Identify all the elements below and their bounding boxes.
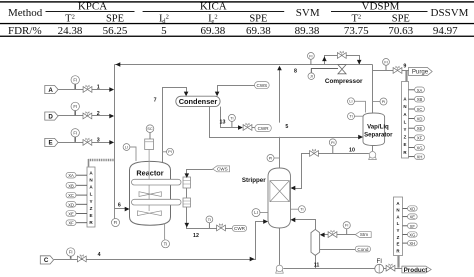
svg-text:FI: FI <box>73 104 77 109</box>
svg-text:Method: Method <box>8 7 43 19</box>
wire CW return valve to CWR <box>252 127 255 129</box>
arrow bypass up <box>322 57 327 62</box>
svg-text:XE: XE <box>417 126 423 131</box>
wire steam line <box>321 234 355 236</box>
svg-text:FI: FI <box>345 224 348 228</box>
svg-text:FDR/%: FDR/% <box>8 25 42 37</box>
valve steam <box>328 230 337 238</box>
svg-text:XF: XF <box>417 136 423 141</box>
svg-text:Reactor: Reactor <box>136 169 163 178</box>
tag feed D <box>45 112 58 120</box>
table mid rule <box>0 23 474 24</box>
instrument FI feed D <box>71 102 79 115</box>
svg-text:TI: TI <box>208 218 211 222</box>
instrument PI reactor <box>163 148 174 155</box>
svg-text:SVM: SVM <box>296 7 320 19</box>
wire stream 6 branch to reactor <box>115 208 129 210</box>
stripper vessel <box>242 168 291 228</box>
reactor vessel <box>130 161 171 225</box>
TABLE <box>0 1 474 37</box>
svg-text:Stripper: Stripper <box>242 177 266 184</box>
tag Cond <box>355 246 370 252</box>
table rule under VDSPM <box>331 10 428 13</box>
svg-text:13: 13 <box>220 119 226 125</box>
valve feed A <box>83 85 92 93</box>
arrow reactor CW return corner <box>185 223 190 228</box>
tag CWR condenser <box>255 125 271 132</box>
reboiler <box>311 229 320 255</box>
reactor agitator blade 2 <box>138 211 162 216</box>
arrows <box>109 57 363 262</box>
separator vessel <box>363 113 393 146</box>
svg-text:XC: XC <box>417 107 423 112</box>
svg-text:C: C <box>44 257 49 264</box>
wire reactor coil header connector <box>186 188 188 198</box>
table rule under KPCA <box>46 10 135 13</box>
svg-text:Product: Product <box>404 267 429 274</box>
svg-text:XC: XC <box>68 193 74 198</box>
instrument PI stripper overhead <box>267 155 280 162</box>
wire stream 7 reactor to condenser <box>163 88 187 164</box>
feed analyzer box <box>87 167 95 227</box>
product analyzer XE <box>403 214 418 220</box>
svg-text:Cond: Cond <box>357 247 368 252</box>
svg-text:8: 8 <box>294 69 297 75</box>
wire feed C line (stream 4) <box>54 222 267 260</box>
svg-text:6: 6 <box>118 203 121 209</box>
wire separator bottoms (stream 10) <box>372 146 374 152</box>
wire feed A line <box>58 89 113 91</box>
svg-text:FI: FI <box>114 220 118 225</box>
table bottom rule <box>0 36 474 37</box>
svg-text:TI: TI <box>300 208 303 212</box>
svg-text:SPE: SPE <box>392 14 410 25</box>
valve feed D <box>83 111 92 119</box>
wire reactor CWS inlet <box>187 170 213 177</box>
arrow stripper overhead into recycle <box>277 66 282 71</box>
instrument FI purge <box>383 59 390 71</box>
svg-text:Vap/Liq: Vap/Liq <box>367 124 389 131</box>
wire feed E line <box>58 142 113 144</box>
instrument FI feed A <box>71 76 79 89</box>
tag feed C <box>40 256 53 264</box>
svg-text:5: 5 <box>285 124 288 130</box>
purge analyzer XH <box>409 154 425 160</box>
svg-text:73.75: 73.75 <box>344 25 369 37</box>
svg-text:PI: PI <box>382 100 386 104</box>
tag CWS reactor <box>213 166 230 172</box>
svg-text:CWR: CWR <box>234 226 246 231</box>
svg-text:SPE: SPE <box>106 14 124 25</box>
arrow condenser CW to valve <box>238 125 243 130</box>
svg-text:TI: TI <box>164 241 168 246</box>
svg-text:CWR: CWR <box>258 126 270 131</box>
svg-text:VDSPM: VDSPM <box>362 1 400 13</box>
svg-text:Compressor: Compressor <box>325 78 363 85</box>
wire condenser CW return <box>221 107 242 128</box>
reactor coil header 1 <box>183 177 191 188</box>
arrow stream 7 into condenser <box>184 92 189 97</box>
svg-text:2: 2 <box>97 111 100 117</box>
svg-text:69.38: 69.38 <box>246 25 271 37</box>
svg-text:69.38: 69.38 <box>201 25 226 37</box>
svg-text:E: E <box>49 140 53 147</box>
stripper packing <box>270 181 290 202</box>
reactor TI stub <box>164 224 166 240</box>
arrow feed A junction <box>109 87 114 92</box>
arrow bypass down <box>357 60 362 65</box>
svg-text:SC: SC <box>147 126 153 131</box>
svg-text:TI: TI <box>230 116 233 120</box>
instrument PI stream 10 <box>329 139 336 153</box>
condenser vessel <box>176 96 220 106</box>
purge analyzer XA <box>409 87 425 93</box>
reactor coil 1 <box>132 179 182 185</box>
instrument JI compressor <box>308 73 315 80</box>
wire feed header vertical <box>114 65 116 219</box>
wire CWS to condenser <box>218 86 255 96</box>
svg-text:24.38: 24.38 <box>58 25 83 37</box>
valve purge <box>393 66 402 74</box>
instrument PI separator <box>373 98 388 105</box>
valve stream 10 <box>310 149 319 157</box>
svg-text:XB: XB <box>417 97 423 102</box>
svg-text:XG: XG <box>416 146 422 151</box>
arrow condenser outlet into separator <box>358 135 363 140</box>
purge analyzer XF <box>409 135 425 141</box>
arrow reboiler return into stripper <box>291 218 296 223</box>
product analyzer XH <box>403 240 418 246</box>
wire reboiler condensate to Cond <box>320 249 356 251</box>
feed analyzer XE <box>66 211 87 217</box>
product analyzer sample line <box>397 256 399 268</box>
feed analyzer XF <box>66 220 87 226</box>
instrument FI feed E <box>71 129 79 142</box>
arrow stream 4 into stripper <box>263 219 268 224</box>
instrument FI feed C <box>67 248 75 259</box>
arrow steam into reboiler <box>320 233 325 238</box>
svg-text:KPCA: KPCA <box>78 1 107 13</box>
svg-text:Condenser: Condenser <box>179 97 218 106</box>
svg-text:FI: FI <box>376 258 382 265</box>
valve compressor bypass <box>337 51 346 59</box>
feed analyzer XC <box>66 192 87 198</box>
tag Stm <box>355 232 371 238</box>
product analyzer XG <box>403 232 418 238</box>
wire reboiler bottom to product line <box>315 255 317 268</box>
svg-text:LI: LI <box>125 145 128 149</box>
purge analyzer box <box>402 82 409 159</box>
reactor agitator motor <box>145 139 154 150</box>
tag Product <box>402 266 431 274</box>
instrument TI reactor CW <box>206 216 213 228</box>
valve condenser CW <box>243 123 252 131</box>
tag feed E <box>45 138 58 146</box>
feed analyzer XA <box>66 172 87 178</box>
instrument TI stripper <box>291 206 305 213</box>
svg-text:94.97: 94.97 <box>433 25 458 37</box>
wire condenser outlet to separator <box>210 107 362 138</box>
arrow CWS into condenser <box>215 92 220 97</box>
svg-text:CWS: CWS <box>217 167 228 172</box>
instrument FI product <box>375 258 384 273</box>
svg-text:XD: XD <box>68 202 74 207</box>
feed analyzer XD <box>66 202 87 208</box>
svg-text:PI: PI <box>331 141 335 145</box>
svg-text:FI: FI <box>384 60 387 64</box>
svg-text:XF: XF <box>410 224 416 229</box>
stripper bottoms pump <box>276 265 284 273</box>
wire product line (stream 11) <box>283 268 402 270</box>
purge analyzer sample line <box>405 71 407 82</box>
svg-text:XF: XF <box>68 221 74 226</box>
svg-text:3: 3 <box>97 137 100 143</box>
instrument FI compressor <box>308 53 315 65</box>
arrow feed D junction <box>109 114 114 119</box>
product analyzer XD <box>403 206 418 212</box>
valve reactor CW <box>217 223 226 231</box>
svg-text:9: 9 <box>403 64 406 70</box>
valve product <box>386 264 395 272</box>
purge analyzer XC <box>409 106 425 112</box>
svg-text:XD: XD <box>417 117 423 122</box>
feed analyzer sample line <box>89 159 115 167</box>
valve feed C <box>77 254 86 262</box>
svg-text:XG: XG <box>409 233 415 238</box>
svg-text:PI: PI <box>269 156 273 160</box>
svg-text:XA: XA <box>68 173 74 178</box>
valve feed E <box>83 138 92 146</box>
arrow stream 6 into reactor <box>125 207 130 212</box>
svg-text:LI: LI <box>349 100 352 104</box>
svg-text:KICA: KICA <box>200 1 227 13</box>
svg-text:XB: XB <box>68 183 74 188</box>
compressor <box>325 65 363 85</box>
svg-text:XD: XD <box>409 207 415 212</box>
svg-text:Separator: Separator <box>364 131 393 138</box>
svg-text:DSSVM: DSSVM <box>431 7 469 19</box>
svg-text:11: 11 <box>314 262 320 268</box>
wire feed D line <box>58 115 113 117</box>
purge analyzer XD <box>409 116 425 122</box>
svg-text:5: 5 <box>161 25 167 37</box>
tag CWS condenser <box>255 82 270 89</box>
instrument FI stream 6 <box>112 209 120 227</box>
wire recycle header top (stream 8) <box>115 64 373 66</box>
svg-text:FI: FI <box>73 130 77 135</box>
wire reboiler vapor return <box>292 220 316 230</box>
reactor coil 2 <box>132 199 182 205</box>
table rule under KICA <box>143 10 285 13</box>
arrow stream 10 into stripper <box>291 186 296 191</box>
svg-text:D: D <box>48 113 53 120</box>
wire separator riser <box>372 65 374 114</box>
svg-text:12: 12 <box>193 233 199 239</box>
svg-text:XE: XE <box>68 212 74 217</box>
wire compressor bypass <box>325 56 360 65</box>
instrument LI separator <box>348 98 366 113</box>
svg-text:FI: FI <box>69 250 73 255</box>
purge analyzer XE <box>409 125 425 131</box>
svg-text:FI: FI <box>309 54 312 58</box>
svg-text:SPE: SPE <box>249 14 267 25</box>
svg-text:XA: XA <box>417 88 423 93</box>
purge analyzer XB <box>409 96 425 102</box>
instrument LI reactor <box>123 144 136 161</box>
instrument FI steam <box>343 222 350 235</box>
wire purge branch <box>373 70 409 72</box>
arrow stream 4 mid-line <box>250 257 255 262</box>
wire stripper bottoms <box>279 228 281 265</box>
reactor coil header 2 <box>183 198 191 207</box>
feed analyzer XB <box>66 183 87 189</box>
arrow feed E junction <box>109 140 114 145</box>
instrument SC agitator <box>146 125 154 139</box>
svg-text:1: 1 <box>97 84 100 90</box>
svg-text:XH: XH <box>409 241 415 246</box>
svg-text:TI: TI <box>349 115 352 119</box>
svg-text:LI: LI <box>254 210 258 215</box>
svg-text:70.63: 70.63 <box>388 25 413 37</box>
svg-text:JI: JI <box>310 75 313 79</box>
instrument LI stripper <box>252 209 268 217</box>
svg-text:XE: XE <box>410 215 416 220</box>
arrow reactor CWS into header <box>185 173 190 178</box>
stream number labels <box>97 64 407 269</box>
svg-text:4: 4 <box>98 252 101 258</box>
purge analyzer XG <box>409 145 425 151</box>
svg-text:PI: PI <box>168 150 172 154</box>
wire stripper overhead (stream 5) <box>279 67 281 168</box>
svg-text:CWS: CWS <box>257 83 268 88</box>
wire reactor CW return (stream 12) <box>187 207 233 229</box>
tag Purge <box>409 67 433 75</box>
svg-text:89.38: 89.38 <box>295 25 320 37</box>
instrument TI condenser CW <box>228 114 235 127</box>
arrow recycle into feed header <box>116 62 121 67</box>
product analyzer XF <box>403 223 418 229</box>
compressor JI signal line <box>311 69 338 73</box>
tag feed A <box>45 86 58 94</box>
table top rule <box>0 1 474 2</box>
svg-text:10: 10 <box>349 147 355 153</box>
svg-text:56.25: 56.25 <box>103 25 128 37</box>
product analyzer box <box>394 197 403 256</box>
svg-text:XH: XH <box>417 155 423 160</box>
svg-text:Purge: Purge <box>412 69 429 76</box>
svg-text:Stm: Stm <box>360 232 368 237</box>
instrument TI reactor <box>162 240 170 248</box>
reactor agitator shaft <box>148 150 150 212</box>
svg-text:FI: FI <box>73 77 77 82</box>
tag CWR reactor <box>232 225 247 231</box>
instrument TI separator <box>348 113 364 120</box>
svg-text:A: A <box>48 87 53 94</box>
separator pump <box>369 152 377 160</box>
svg-text:7: 7 <box>154 97 157 103</box>
reactor agitator blade 1 <box>139 192 161 197</box>
